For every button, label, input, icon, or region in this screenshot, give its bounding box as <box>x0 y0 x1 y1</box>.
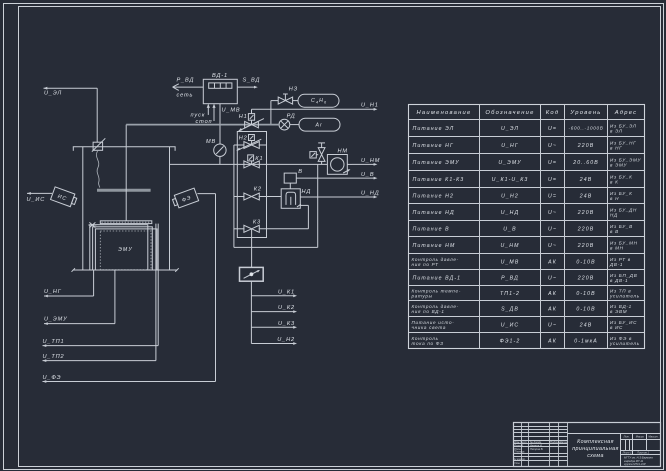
svg-text:U_В: U_В <box>503 226 516 232</box>
svg-text:РД: РД <box>287 113 296 119</box>
svg-text:в В: в В <box>610 229 619 234</box>
svg-text:Наименование: Наименование <box>416 110 471 116</box>
svg-text:220В: 220В <box>577 143 595 149</box>
svg-text:U_ИС: U_ИС <box>27 197 46 203</box>
svg-text:-600..-1000В: -600..-1000В <box>569 126 604 131</box>
svg-text:группа МТ11-31Р: группа МТ11-31Р <box>624 462 646 466</box>
svg-text:U~: U~ <box>548 243 557 249</box>
chamber bottom flange <box>72 268 179 272</box>
svg-text:220В: 220В <box>577 210 595 216</box>
node U_К2 <box>251 305 297 313</box>
wire ЭМУ drop <box>114 270 116 324</box>
gas bottle C4H6 <box>293 94 339 107</box>
svg-text:24В: 24В <box>579 193 593 199</box>
svg-text:усилитель: усилитель <box>609 341 640 346</box>
svg-text:Утв.: Утв. <box>514 461 520 465</box>
svg-text:Н.контр.: Н.контр. <box>514 457 526 461</box>
unit ЭМУ <box>100 231 151 270</box>
svg-text:0-10В: 0-10В <box>576 306 595 312</box>
svg-text:U_НМ: U_НМ <box>500 243 519 249</box>
pipe chamber to НМ <box>170 163 353 165</box>
wire НГ drop <box>93 270 95 296</box>
svg-text:20..60В: 20..60В <box>572 160 599 166</box>
ЭМУ plate 3 <box>95 229 157 270</box>
svg-text:U=: U= <box>548 160 557 166</box>
svg-text:Уровень: Уровень <box>569 110 601 116</box>
svg-text:в ЭЛ: в ЭЛ <box>610 129 623 134</box>
svg-text:U_ФЭ: U_ФЭ <box>43 375 62 381</box>
svg-text:U_НГ: U_НГ <box>501 143 519 149</box>
svg-text:ВД-1: ВД-1 <box>212 73 228 79</box>
svg-text:U_НД: U_НД <box>501 210 519 216</box>
svg-text:Питание В: Питание В <box>413 226 450 232</box>
svg-text:Питание ЭМУ: Питание ЭМУ <box>413 160 460 166</box>
svg-text:U_МВ: U_МВ <box>222 108 241 114</box>
svg-text:В: В <box>298 169 303 175</box>
node U_ТП2 <box>43 354 156 362</box>
svg-text:Петров В.: Петров В. <box>530 447 544 451</box>
svg-text:НД: НД <box>610 213 618 218</box>
svg-text:Лит.: Лит. <box>622 435 630 439</box>
svg-text:АК: АК <box>547 291 557 297</box>
node U_НД <box>300 191 379 199</box>
node U_ИС <box>27 192 53 203</box>
svg-text:Адрес: Адрес <box>614 110 638 116</box>
svg-text:тока по ФЗ: тока по ФЗ <box>412 341 444 346</box>
node U_ЭМУ <box>44 316 115 325</box>
svg-text:U_Н2: U_Н2 <box>501 193 519 199</box>
svg-text:U_ИС: U_ИС <box>501 322 520 328</box>
svg-text:220В: 220В <box>577 243 595 249</box>
svg-text:U_МВ: U_МВ <box>501 259 520 265</box>
svg-text:Н2: Н2 <box>239 135 248 141</box>
node P_ВД сеть <box>173 77 204 98</box>
wire ФЭ to bus <box>197 194 215 382</box>
svg-text:U~: U~ <box>548 226 557 232</box>
svg-text:U=: U= <box>548 177 557 183</box>
node U_НГ <box>44 289 94 298</box>
svg-text:в ЭМУ: в ЭМУ <box>610 163 627 168</box>
svg-text:U_К2: U_К2 <box>278 305 295 311</box>
valve НВ vertical <box>318 143 325 165</box>
wire К3 bypass <box>259 205 309 228</box>
gas bottle Ar <box>290 118 340 131</box>
svg-text:в К: в К <box>610 180 618 185</box>
svg-text:U_Н1: U_Н1 <box>361 103 379 109</box>
svg-text:U~: U~ <box>548 322 557 328</box>
pipe gas main <box>126 124 279 126</box>
svg-text:U_ТП1: U_ТП1 <box>43 339 65 345</box>
wire МВ to pipe <box>219 156 221 164</box>
solenoid НВ <box>310 152 318 158</box>
svg-text:Питание К1-К3: Питание К1-К3 <box>413 177 465 183</box>
regulator РД <box>279 113 296 130</box>
filament wire <box>96 151 99 188</box>
gas inlet pipe vertical <box>125 125 127 221</box>
chamber top flange <box>73 147 176 151</box>
svg-text:U_К1-U_К3: U_К1-U_К3 <box>492 177 529 183</box>
wire К2 to НД <box>259 196 281 198</box>
gauge МВ <box>206 139 226 156</box>
svg-text:U_НМ: U_НМ <box>361 158 380 164</box>
wire ТП1 drop <box>157 224 159 346</box>
node S_ВД <box>237 77 260 88</box>
node U_Н1 <box>252 103 379 114</box>
svg-text:НМ: НМ <box>338 148 348 154</box>
svg-text:Обозначение: Обозначение <box>485 110 534 116</box>
substrate holder bar <box>100 221 152 224</box>
photodetector ФЭ <box>171 188 198 209</box>
light source ИС <box>51 187 78 208</box>
node U_ТП1 <box>43 339 159 347</box>
svg-text:НЗ: НЗ <box>289 86 298 92</box>
pump НМ <box>327 148 350 174</box>
svg-text:Ar: Ar <box>315 123 323 129</box>
svg-text:принципиальная: принципиальная <box>572 446 619 452</box>
wire К3 to РТ <box>251 229 253 268</box>
marker X <box>88 222 96 227</box>
node стоп <box>196 104 216 125</box>
svg-text:U_Н2: U_Н2 <box>277 337 295 343</box>
svg-text:№ докум.: № докум. <box>530 440 542 444</box>
valve Н2 <box>234 135 267 151</box>
node U_НМ <box>352 158 380 166</box>
svg-text:ратуры: ратуры <box>411 294 433 299</box>
svg-text:в ДВ-1: в ДВ-1 <box>610 278 628 283</box>
chamber walls <box>83 147 170 270</box>
svg-text:в ИС: в ИС <box>610 325 623 330</box>
svg-text:S_ВД: S_ВД <box>243 77 261 83</box>
svg-text:ФЭ: ФЭ <box>181 195 192 204</box>
node U_Н2 <box>251 337 297 345</box>
valve К1 <box>244 155 264 168</box>
svg-text:U_ЭМУ: U_ЭМУ <box>44 316 68 322</box>
svg-text:24В: 24В <box>579 322 593 328</box>
svg-text:усилитель: усилитель <box>609 294 640 299</box>
svg-text:К3: К3 <box>253 219 261 225</box>
svg-text:U_К1: U_К1 <box>278 289 295 295</box>
node пуск <box>191 104 210 119</box>
wire НД return loop <box>234 164 318 247</box>
svg-text:Питание ВД-1: Питание ВД-1 <box>413 275 462 281</box>
node U_ФЭ <box>43 375 216 383</box>
wire U_МВ <box>220 104 240 144</box>
svg-text:U~: U~ <box>548 210 557 216</box>
signal table <box>409 105 645 349</box>
controller ВД-1 <box>203 73 237 104</box>
sensor РТ <box>240 267 264 281</box>
svg-text:Н1: Н1 <box>239 114 248 120</box>
svg-text:U_НД: U_НД <box>361 191 380 197</box>
valve К2 <box>234 187 262 200</box>
valve Н1 <box>238 114 264 132</box>
svg-text:U_ЭЛ: U_ЭЛ <box>501 126 519 132</box>
svg-text:Код: Код <box>546 110 560 116</box>
svg-text:НД: НД <box>302 189 312 195</box>
svg-text:Дата: Дата <box>559 440 568 444</box>
svg-text:Питание НГ: Питание НГ <box>413 143 455 149</box>
svg-text:в МН: в МН <box>610 246 624 251</box>
svg-text:ТП1-2: ТП1-2 <box>500 291 520 297</box>
svg-text:U_ЭЛ: U_ЭЛ <box>44 91 62 97</box>
svg-text:U=: U= <box>548 126 557 132</box>
title block <box>514 423 661 467</box>
svg-text:ДВ-1: ДВ-1 <box>609 262 623 267</box>
ЭМУ plate 2 <box>93 227 153 270</box>
svg-text:Питание НД: Питание НД <box>413 210 455 216</box>
svg-text:0-10В: 0-10В <box>576 291 595 297</box>
substrate bar <box>97 189 151 192</box>
node U_ЭЛ <box>44 87 98 97</box>
svg-text:U~: U~ <box>548 143 557 149</box>
svg-text:U_В: U_В <box>361 172 374 178</box>
svg-text:U=: U= <box>548 193 557 199</box>
valve НЗ <box>271 86 298 104</box>
svg-text:сеть: сеть <box>177 92 194 98</box>
svg-text:0-10В: 0-10В <box>576 259 595 265</box>
wire ТП2 drop <box>155 224 157 361</box>
svg-text:МВ: МВ <box>206 139 216 145</box>
node U_В <box>296 172 377 180</box>
svg-text:Комплексная: Комплексная <box>577 439 614 445</box>
svg-text:АК: АК <box>547 306 557 312</box>
svg-text:Питание ЭЛ: Питание ЭЛ <box>413 126 455 132</box>
wire РТ bus down <box>250 281 252 343</box>
electron gun ЭЛ <box>92 138 105 151</box>
fan В <box>284 169 303 189</box>
svg-text:АК: АК <box>547 338 557 344</box>
wire manifold left bus <box>233 145 235 247</box>
svg-text:Питание НМ: Питание НМ <box>413 243 456 249</box>
svg-text:пуск: пуск <box>191 112 206 118</box>
svg-text:ФЭ1-2: ФЭ1-2 <box>500 338 521 344</box>
node U_К1 <box>251 289 297 297</box>
svg-text:Масса: Масса <box>636 435 644 439</box>
svg-text:в НГ: в НГ <box>610 146 622 151</box>
svg-text:C4H6: C4H6 <box>311 98 327 104</box>
svg-text:ния по РТ: ния по РТ <box>412 262 440 267</box>
valve К3 <box>234 219 261 232</box>
svg-text:Масшт.: Масшт. <box>648 435 659 439</box>
svg-text:Изм.Лист: Изм.Лист <box>514 440 527 444</box>
svg-text:Т.контр.: Т.контр. <box>514 450 525 454</box>
svg-text:схема: схема <box>587 453 604 459</box>
svg-text:U_К3: U_К3 <box>278 321 295 327</box>
svg-text:220В: 220В <box>577 275 595 281</box>
svg-text:24В: 24В <box>579 177 593 183</box>
svg-text:Иванов И.: Иванов И. <box>530 443 543 447</box>
svg-text:АК: АК <box>547 259 557 265</box>
svg-text:чника света: чника света <box>412 325 447 330</box>
svg-text:U_НГ: U_НГ <box>44 289 62 295</box>
svg-text:ИС: ИС <box>57 194 68 203</box>
svg-text:в ЭВМ: в ЭВМ <box>610 309 627 314</box>
manifold block <box>237 132 266 238</box>
pump НД <box>281 189 311 209</box>
svg-text:Лист 1: Лист 1 <box>622 451 633 455</box>
svg-text:P_ВД: P_ВД <box>501 275 519 281</box>
svg-text:ЭМУ: ЭМУ <box>118 247 133 253</box>
svg-text:Разраб.: Разраб. <box>514 443 524 447</box>
svg-text:S_ДВ: S_ДВ <box>501 306 519 312</box>
svg-text:в Н: в Н <box>610 196 619 201</box>
svg-text:U_ТП2: U_ТП2 <box>43 354 65 360</box>
svg-text:Питание Н2: Питание Н2 <box>413 193 455 199</box>
node U_К3 <box>251 321 297 329</box>
wire gas branch vertical <box>270 101 272 125</box>
wire U_ЭЛ vertical <box>96 88 98 142</box>
svg-text:220В: 220В <box>577 226 595 232</box>
svg-text:ния по ВД-1: ния по ВД-1 <box>412 309 445 314</box>
svg-text:0-1мкА: 0-1мкА <box>574 338 598 344</box>
svg-text:Листов 1: Листов 1 <box>636 451 650 455</box>
svg-text:U~: U~ <box>548 275 557 281</box>
ЭМУ plate 1 <box>90 225 148 270</box>
svg-text:U_ЭМУ: U_ЭМУ <box>498 160 521 166</box>
svg-text:P_ВД: P_ВД <box>177 77 195 83</box>
svg-text:К2: К2 <box>254 187 262 193</box>
